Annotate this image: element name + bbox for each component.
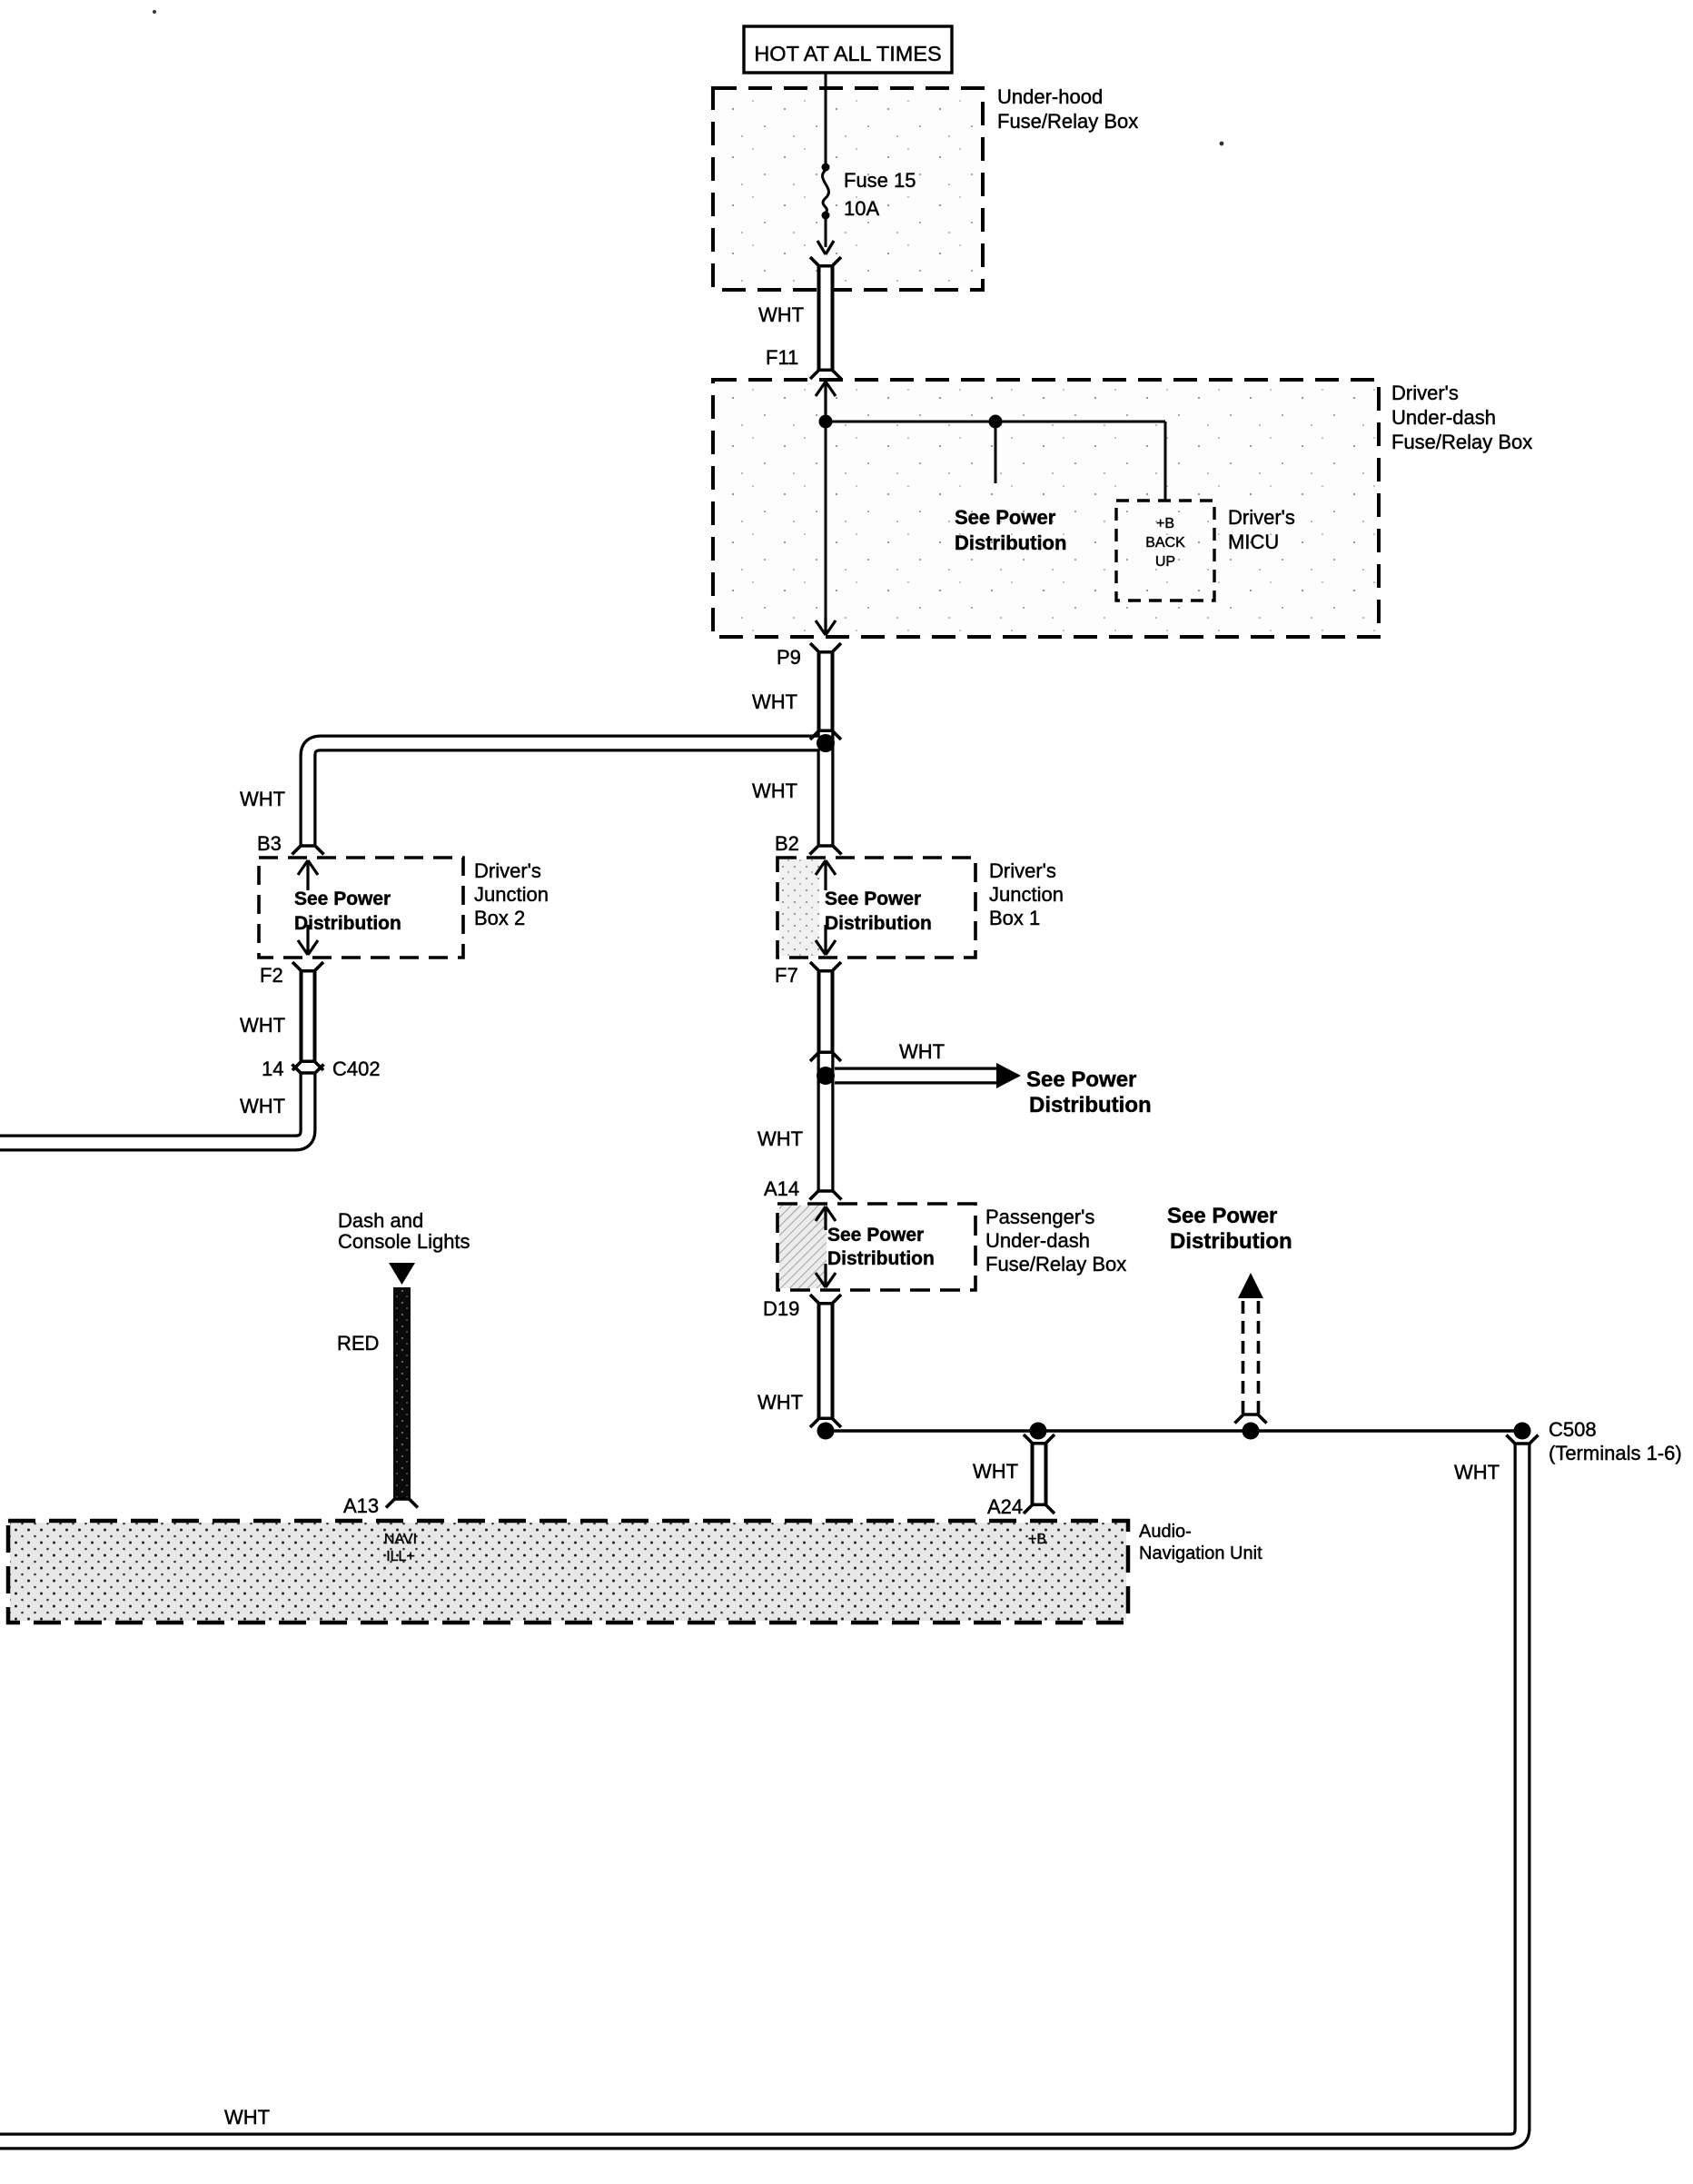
terminal B3 (292, 845, 324, 855)
svg-text:WHT: WHT (757, 1127, 803, 1150)
node A24 bus junction (1030, 1423, 1047, 1440)
arrow out passenger box bottom (816, 1264, 836, 1287)
svg-text:ILL+: ILL+ (386, 1549, 415, 1564)
arrowhead to see power distribution (right) (996, 1063, 1021, 1088)
terminal A14 (810, 1190, 842, 1200)
svg-text:UP: UP (1155, 554, 1175, 570)
arrow into driver's box top (816, 382, 836, 421)
svg-text:F2: F2 (260, 964, 283, 987)
node D19 bus junction (817, 1423, 835, 1440)
dashed arrow shaft to power distribution (1243, 1297, 1259, 1414)
svg-text:Navigation Unit: Navigation Unit (1139, 1544, 1262, 1564)
double wire white overlays (0, 732, 1522, 2141)
svg-text:WHT: WHT (1454, 1461, 1500, 1484)
power label HOT AT ALL TIMES (744, 26, 952, 73)
audio-navigation unit label (1139, 1522, 1262, 1564)
see power distribution stub wire (995, 422, 997, 483)
driver's junction box 1 (777, 858, 975, 958)
svg-text:Distribution: Distribution (1170, 1229, 1292, 1254)
svg-text:F11: F11 (766, 346, 798, 369)
svg-text:WHT: WHT (973, 1460, 1018, 1483)
svg-text:Distribution: Distribution (827, 1248, 935, 1269)
see power distribution label (up arrow) (1167, 1204, 1292, 1254)
svg-text:Fuse/Relay Box: Fuse/Relay Box (985, 1253, 1126, 1276)
svg-text:Fuse 15: Fuse 15 (844, 169, 916, 192)
svg-text:Audio-: Audio- (1139, 1522, 1192, 1542)
svg-text:A13: A13 (343, 1494, 379, 1517)
svg-text:MICU: MICU (1228, 531, 1279, 553)
bus wire D19 to C508 (826, 1429, 1522, 1432)
wire from HOT AT ALL TIMES to fuse (825, 73, 827, 165)
svg-text:See Power: See Power (827, 1225, 924, 1246)
svg-text:14: 14 (262, 1057, 283, 1080)
svg-text:B3: B3 (257, 832, 282, 855)
svg-text:WHT: WHT (758, 303, 804, 326)
internal wire driver box horizontal (826, 421, 1165, 423)
svg-text:Under-hood: Under-hood (997, 85, 1103, 108)
svg-text:F7: F7 (775, 964, 798, 987)
dashed arrow base flare (1235, 1414, 1267, 1424)
junction box 1 see power distribution text (825, 888, 932, 934)
arrow into junction box 2 top (298, 860, 318, 890)
terminal A13 (386, 1498, 418, 1508)
audio-navigation unit box (8, 1521, 1128, 1623)
driver's under-dash box label (1391, 382, 1532, 453)
svg-text:See Power: See Power (1167, 1204, 1277, 1228)
svg-text:See Power: See Power (825, 888, 921, 909)
svg-text:Under-dash: Under-dash (985, 1229, 1090, 1252)
connector A24 (1024, 1434, 1054, 1514)
driver's under-dash fuse/relay box (713, 380, 1379, 637)
node P9/B3/B2 junction (817, 734, 835, 752)
driver's junction box 1 label (989, 859, 1064, 929)
wire color and pin labels (224, 303, 1682, 2129)
svg-text:Junction: Junction (474, 883, 549, 906)
svg-text:(Terminals 1-6): (Terminals 1-6) (1549, 1442, 1682, 1464)
svg-text:WHT: WHT (752, 690, 797, 713)
svg-text:C402: C402 (332, 1057, 381, 1080)
connector F2 (292, 962, 323, 1070)
svg-text:See Power: See Power (955, 506, 1056, 529)
arrow out junction box 1 bottom (816, 925, 836, 955)
passenger's box label (985, 1206, 1126, 1276)
terminal B2 (810, 845, 842, 855)
svg-text:Distribution: Distribution (1029, 1093, 1152, 1117)
under-hood fuse/relay box (713, 88, 983, 290)
driver's MICU label (1228, 506, 1295, 553)
wire WHT C508 to bottom left (0, 1443, 1522, 2141)
svg-text:A24: A24 (987, 1495, 1023, 1518)
svg-text:P9: P9 (777, 646, 801, 669)
passenger's under-dash fuse/relay box (777, 1204, 975, 1290)
scan speck (153, 10, 156, 14)
arrow out junction box 2 bottom (298, 925, 318, 955)
svg-text:See Power: See Power (294, 888, 391, 909)
wire RED dash and console lights (393, 1287, 411, 1498)
svg-text:Distribution: Distribution (955, 531, 1066, 554)
pin label +B audio unit (1028, 1532, 1046, 1547)
svg-text:Driver's: Driver's (474, 859, 541, 882)
svg-text:Dash and: Dash and (338, 1209, 423, 1232)
svg-text:Fuse/Relay Box: Fuse/Relay Box (1391, 431, 1532, 453)
connector D19 (810, 1295, 841, 1427)
svg-text:Console Lights: Console Lights (338, 1230, 470, 1253)
svg-text:RED: RED (337, 1332, 379, 1355)
svg-text:D19: D19 (763, 1297, 799, 1320)
driver's junction box 2 label (474, 859, 549, 929)
wire WHT branch to B3 (308, 743, 826, 845)
svg-text:WHT: WHT (240, 1095, 285, 1117)
node driver box junction 1 (819, 415, 833, 429)
under-hood box shading (715, 90, 981, 288)
svg-text:Distribution: Distribution (294, 913, 401, 934)
svg-text:Driver's: Driver's (1228, 506, 1295, 529)
svg-text:WHT: WHT (240, 788, 285, 810)
pin label NAVI ILL+ (384, 1532, 417, 1564)
driver under-dash box shading (715, 382, 1377, 635)
svg-text:Box 2: Box 2 (474, 907, 525, 929)
fuse Fuse 15 10A (817, 164, 834, 255)
connector F11 (810, 257, 841, 379)
svg-text:WHT: WHT (899, 1040, 945, 1063)
audio-navigation unit shading (10, 1523, 1126, 1621)
terminal 14 C402 (292, 1065, 324, 1075)
svg-text:Distribution: Distribution (825, 913, 932, 934)
svg-text:Driver's: Driver's (989, 859, 1056, 882)
svg-text:BACK: BACK (1145, 535, 1185, 551)
arrowhead dashed arrow (up) (1238, 1273, 1263, 1298)
node driver box junction 2 (989, 415, 1003, 429)
passenger box shading (779, 1206, 827, 1288)
junction box 2 see power distribution text (294, 888, 401, 934)
svg-text:C508: C508 (1549, 1418, 1597, 1441)
fuse value label (844, 169, 916, 220)
svg-text:NAVI: NAVI (384, 1532, 417, 1547)
see power distribution label (right arrow) (1026, 1067, 1152, 1117)
connector F7 (810, 962, 841, 1061)
wire WHT C402 to left (0, 1072, 308, 1143)
arrowhead dash and console lights (down) (389, 1263, 415, 1285)
svg-text:+B: +B (1028, 1532, 1046, 1547)
wire WHT P9 junction to B2 (817, 732, 835, 845)
terminal C508 top (1507, 1435, 1539, 1445)
wire to driver MICU (1164, 422, 1167, 501)
under-hood box label (997, 85, 1138, 133)
connector P9 (810, 643, 841, 740)
svg-text:+B: +B (1156, 516, 1174, 531)
svg-text:A14: A14 (764, 1177, 799, 1200)
wire WHT arrow to power distribution (835, 1067, 997, 1085)
svg-text:WHT: WHT (224, 2106, 270, 2129)
svg-text:Fuse/Relay Box: Fuse/Relay Box (997, 110, 1138, 133)
arrow into passenger box top (816, 1206, 836, 1230)
node dashed arrow bus junction (1243, 1423, 1260, 1440)
passenger box see power distribution text (827, 1225, 935, 1269)
svg-text:WHT: WHT (240, 1014, 285, 1037)
svg-text:Junction: Junction (989, 883, 1064, 906)
svg-text:Passenger's: Passenger's (985, 1206, 1094, 1228)
junction box 1 shading (779, 859, 819, 956)
svg-text:WHT: WHT (752, 779, 797, 802)
svg-text:Driver's: Driver's (1391, 382, 1459, 404)
driver's MICU +B BACK UP box (1116, 501, 1214, 601)
arrow out driver's box bottom (816, 618, 836, 635)
wire WHT F7 to A14 (817, 1054, 835, 1190)
svg-text:Box 1: Box 1 (989, 907, 1040, 929)
svg-text:10A: 10A (844, 197, 879, 220)
svg-text:B2: B2 (775, 832, 799, 855)
svg-text:HOT AT ALL TIMES: HOT AT ALL TIMES (754, 42, 941, 65)
node C508 junction (1514, 1423, 1531, 1440)
svg-text:Under-dash: Under-dash (1391, 406, 1496, 429)
arrow into junction box 1 top (816, 860, 836, 890)
see power distribution label (driver box) (955, 506, 1066, 554)
node F7 branch junction (817, 1067, 835, 1085)
driver's junction box 2 (259, 858, 463, 958)
internal wire driver box vertical (825, 382, 827, 634)
svg-text:See Power: See Power (1026, 1067, 1136, 1092)
svg-text:WHT: WHT (757, 1391, 803, 1414)
